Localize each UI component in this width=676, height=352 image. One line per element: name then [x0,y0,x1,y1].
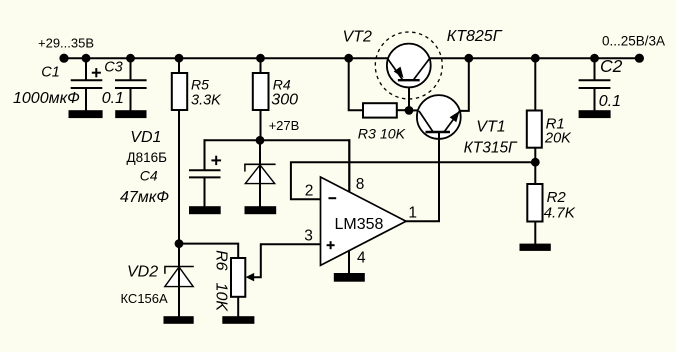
svg-text:8: 8 [356,176,365,193]
svg-text:LM358: LM358 [335,216,384,233]
svg-text:0...25В/3А: 0...25В/3А [602,34,665,49]
svg-text:20K: 20K [544,131,572,147]
svg-text:+29...35В: +29...35В [38,35,94,50]
svg-text:VD1: VD1 [130,129,161,146]
svg-text:C1: C1 [41,65,60,81]
svg-text:R5: R5 [191,76,209,92]
svg-text:КС156А: КС156А [121,291,169,306]
svg-text:2: 2 [305,183,314,200]
svg-text:1000мкФ: 1000мкФ [13,90,80,107]
svg-text:300: 300 [271,92,298,109]
svg-text:КТ315Г: КТ315Г [464,140,518,157]
svg-text:R4: R4 [273,76,291,92]
svg-text:R3 10K: R3 10K [358,127,406,143]
svg-text:4: 4 [357,249,366,266]
svg-text:4.7K: 4.7K [544,205,576,222]
svg-text:1: 1 [408,205,417,222]
svg-text:Д816Б: Д816Б [127,150,168,165]
svg-text:R6: R6 [213,250,230,271]
svg-text:C3: C3 [104,59,123,75]
svg-text:0.1: 0.1 [102,90,124,107]
svg-text:0.1: 0.1 [599,93,621,110]
svg-text:VD2: VD2 [127,264,158,281]
svg-text:+27В: +27В [269,118,300,133]
svg-text:C2: C2 [600,56,623,76]
svg-text:10K: 10K [213,283,230,313]
svg-text:3: 3 [304,227,313,244]
svg-text:VT2: VT2 [343,28,372,45]
svg-text:КТ825Г: КТ825Г [447,28,503,45]
svg-text:47мкФ: 47мкФ [120,189,169,206]
svg-text:3.3K: 3.3K [191,93,222,109]
svg-text:C4: C4 [140,168,158,184]
svg-text:VT1: VT1 [476,119,505,136]
